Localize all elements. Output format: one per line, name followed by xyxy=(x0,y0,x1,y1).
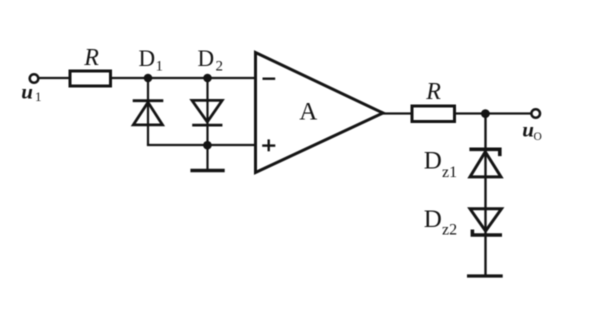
svg-text:O: O xyxy=(534,131,542,143)
svg-text:D: D xyxy=(139,46,156,71)
svg-text:D: D xyxy=(198,46,215,71)
svg-text:A: A xyxy=(299,99,317,126)
svg-text:1: 1 xyxy=(156,59,164,75)
op-amp U1 A xyxy=(256,53,384,173)
diode D2 xyxy=(192,100,222,125)
svg-text:z1: z1 xyxy=(442,164,457,181)
resistor R2 xyxy=(412,106,455,122)
node C (output junction) xyxy=(481,109,490,118)
svg-text:u: u xyxy=(522,118,534,142)
svg-text:u: u xyxy=(21,80,33,104)
output terminal uO xyxy=(531,109,540,118)
svg-text:1: 1 xyxy=(35,89,42,104)
resistor R1 xyxy=(70,71,111,86)
wire zener branch vertical xyxy=(484,114,486,277)
wire R2 to output terminal xyxy=(455,112,532,114)
ground (below Dz2) xyxy=(467,274,503,277)
ground (below D2) xyxy=(190,169,224,172)
svg-text:R: R xyxy=(425,79,441,105)
wire bottom rail to op-amp noninverting input xyxy=(147,144,256,146)
wire D2 branch vertical xyxy=(206,78,208,171)
wire op-amp output to R2 xyxy=(381,112,412,114)
wire D1 branch vertical xyxy=(147,78,149,145)
zener diode Dz1 xyxy=(469,149,501,177)
node B (D2 top junction) xyxy=(203,74,212,83)
svg-text:D: D xyxy=(424,148,442,175)
input terminal u1 xyxy=(30,74,39,83)
svg-text:R: R xyxy=(83,45,99,71)
wire R1 to op-amp inverting input xyxy=(111,77,256,79)
wire input to R1 xyxy=(39,77,71,79)
node A (D1 top junction) xyxy=(144,74,153,83)
zener diode Dz2 xyxy=(470,209,502,235)
svg-text:z2: z2 xyxy=(442,222,457,239)
svg-text:D: D xyxy=(424,206,442,233)
diode D1 xyxy=(133,101,164,125)
svg-text:2: 2 xyxy=(216,59,224,75)
junction node (D2 bottom) xyxy=(203,141,212,150)
